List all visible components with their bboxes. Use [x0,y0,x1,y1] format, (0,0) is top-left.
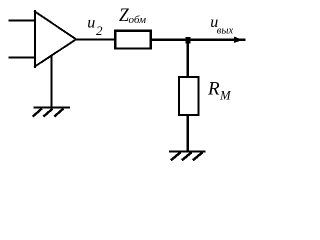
junction node [186,37,191,43]
wire (inverting input) [9,57,35,59]
wire (R_M to ground) [186,115,189,152]
op-amp U1 [34,10,76,68]
ground (left, under op-amp) [33,108,70,117]
resistor R_M [179,77,198,115]
wire (non-inverting input) [9,19,35,21]
arrowhead (output) [234,37,243,43]
impedance Z1 box (Z_obm) [115,31,150,49]
wire (Z box to output arrow) [151,39,246,41]
wire (op-amp output to Z box) [75,39,115,41]
ground (right, under R_M) [169,151,206,160]
wire (junction down to R_M) [186,40,189,77]
wire (op-amp power pin down) [50,56,52,108]
